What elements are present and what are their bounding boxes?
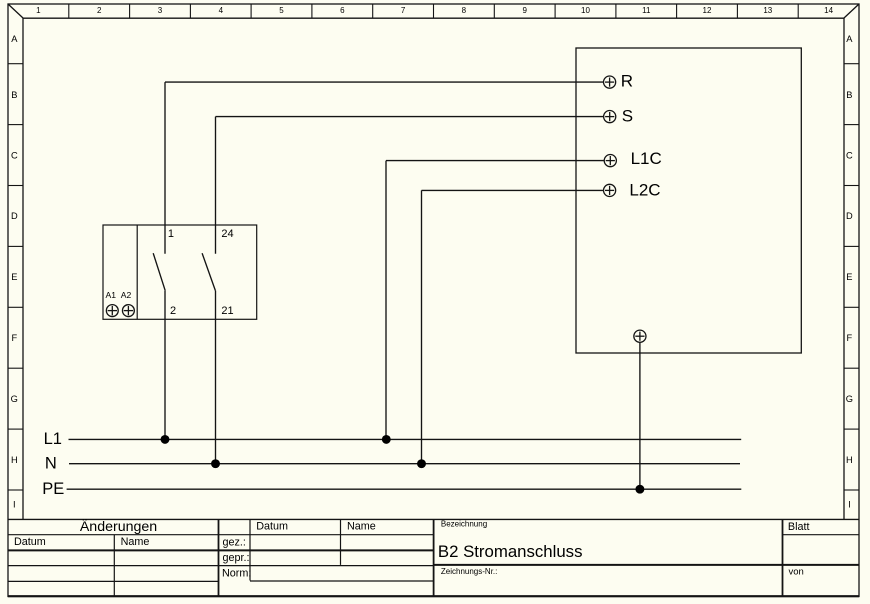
wire L1C vertical to L1 bus [385,161,387,440]
wire contact pin 21 to N bus [215,291,217,464]
svg-text:E: E [11,272,17,282]
svg-text:2: 2 [170,305,176,317]
svg-text:Bezeichnung: Bezeichnung [441,520,487,529]
junction L1 / contact 2 [161,435,170,444]
svg-text:gez.:: gez.: [223,537,246,549]
terminal S [604,111,616,123]
svg-text:L1C: L1C [631,149,662,168]
terminal R [604,76,616,88]
svg-text:4: 4 [219,6,224,15]
svg-text:C: C [11,150,18,160]
svg-text:3: 3 [158,6,163,15]
svg-text:10: 10 [581,6,590,15]
svg-text:G: G [846,394,853,404]
svg-text:B2 Stromanschluss: B2 Stromanschluss [438,542,583,561]
svg-text:14: 14 [824,6,833,15]
wire R horizontal [165,81,604,83]
svg-text:I: I [13,500,16,510]
wire S horizontal [216,116,604,118]
svg-text:Datum: Datum [14,536,46,548]
svg-text:1: 1 [36,6,41,15]
coil terminal A1 [106,305,118,317]
svg-text:I: I [848,500,851,510]
contact blade 1-2 [153,253,165,290]
svg-text:N: N [45,455,57,473]
svg-text:D: D [11,211,18,221]
svg-text:S: S [622,106,633,125]
svg-text:5: 5 [279,6,284,15]
svg-text:A1: A1 [106,290,117,300]
svg-text:2: 2 [97,6,102,15]
wire L1C horizontal [386,160,604,162]
contact blade 24-21 [202,253,215,290]
svg-text:11: 11 [642,6,651,15]
svg-text:8: 8 [462,6,467,15]
junction PE / device PE [635,485,644,494]
wire L2C horizontal [422,189,604,191]
svg-text:A: A [846,34,853,44]
svg-text:12: 12 [703,6,712,15]
terminal PE on device [634,330,646,342]
svg-text:L1: L1 [44,430,62,448]
svg-text:Name: Name [121,536,150,548]
svg-text:C: C [846,150,853,160]
svg-text:Datum: Datum [256,521,288,533]
bus N [69,463,740,465]
junction L1 / L1C [382,435,391,444]
svg-text:13: 13 [763,6,772,15]
svg-text:Norm:: Norm: [222,568,251,580]
svg-text:F: F [847,333,853,343]
svg-text:PE: PE [42,480,64,498]
relay contact block [103,225,257,319]
wire PE terminal to PE bus [639,342,641,489]
junction N / contact 21 [211,459,220,468]
svg-text:9: 9 [522,6,527,15]
svg-text:Änderungen: Änderungen [80,518,157,535]
svg-text:R: R [621,71,633,90]
svg-text:21: 21 [221,305,233,317]
junction N / L2C [417,459,426,468]
wire contact pin 2 to L1 bus [164,291,166,440]
svg-text:E: E [846,272,852,282]
svg-text:B: B [846,90,852,100]
svg-text:6: 6 [340,6,345,15]
svg-text:B: B [11,90,17,100]
svg-text:H: H [846,455,853,465]
svg-text:D: D [846,211,853,221]
svg-text:von: von [789,567,804,578]
svg-text:1: 1 [168,228,174,240]
wire R vertical to contact pin 1 [164,82,166,254]
wire L2C vertical to N bus [421,190,423,463]
wire S vertical to contact pin 24 [215,117,217,254]
svg-text:F: F [11,333,17,343]
svg-text:G: G [11,394,18,404]
svg-text:A2: A2 [121,290,132,300]
bus L1 [69,438,742,440]
svg-text:Zeichnungs-Nr.:: Zeichnungs-Nr.: [441,567,497,576]
svg-text:Blatt: Blatt [788,521,810,533]
svg-text:24: 24 [221,228,233,240]
svg-text:gepr.:: gepr.: [223,552,250,564]
svg-text:Name: Name [347,521,376,533]
title block [8,519,859,596]
coil terminal A2 [122,305,134,317]
svg-text:H: H [11,455,18,465]
bus PE [67,488,742,490]
svg-text:7: 7 [401,6,406,15]
device B2 outline [576,48,801,353]
terminal L1C [604,155,616,167]
svg-text:L2C: L2C [629,181,660,200]
terminal L2C [604,184,616,196]
svg-text:A: A [11,34,18,44]
